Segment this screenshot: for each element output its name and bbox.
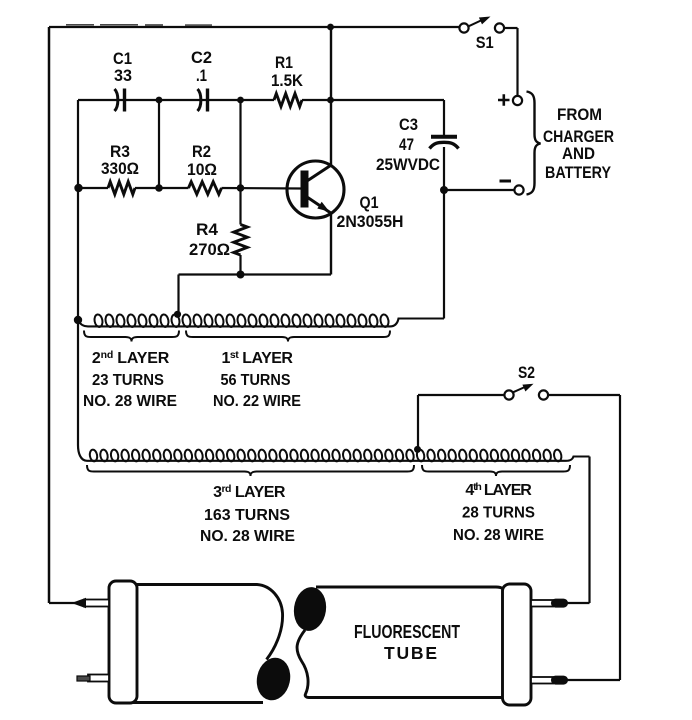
resistor R3 — [108, 182, 135, 195]
inductor winding row 2 (layers 3+4) — [87, 457, 590, 461]
wire: horizontal bus y=100 — [78, 99, 274, 101]
brace: 4th layer — [422, 465, 570, 476]
switch S1 — [459, 23, 468, 32]
- terminal — [514, 185, 523, 194]
svg-text:3rd LAYER: 3rd LAYER — [213, 483, 286, 501]
svg-text:1st LAYER: 1st LAYER — [222, 349, 294, 367]
wire: outer left vertical rail — [48, 27, 51, 603]
svg-text:R4: R4 — [196, 221, 219, 239]
wire: C3 bottom to minus terminal — [444, 189, 515, 191]
node: winding row2 tap (3rd/4th layer) — [414, 446, 421, 453]
resistor R4 — [239, 188, 241, 225]
node: R3/R2 junction (159,188) — [155, 184, 163, 192]
svg-text:R1: R1 — [275, 54, 293, 72]
pin: tube upper-right — [531, 600, 553, 607]
wire: down to first winding right end — [443, 190, 445, 319]
node: R3 left junction (78,188) — [74, 184, 82, 192]
node: R2/R4/base junction (240,188) — [237, 184, 245, 192]
brace: 1st layer — [186, 331, 390, 342]
svg-text:C1: C1 — [113, 50, 132, 68]
inductor winding row 1 (layers 2+1) — [78, 319, 444, 327]
svg-text:23 TURNS: 23 TURNS — [92, 372, 164, 389]
svg-text:25WVDC: 25WVDC — [376, 156, 440, 174]
resistor R1 — [274, 94, 302, 107]
pin: tube lower-left (stub) — [88, 675, 109, 682]
svg-text:NO. 28 WIRE: NO. 28 WIRE — [83, 393, 177, 410]
svg-text:R2: R2 — [192, 143, 211, 161]
brace: from charger and battery — [527, 92, 541, 195]
svg-text:C2: C2 — [191, 49, 212, 67]
svg-text:NO. 28 WIRE: NO. 28 WIRE — [453, 527, 544, 544]
node: R1/collector junction (330,100) — [327, 97, 334, 104]
wire: bottom-left to tube pin — [49, 602, 78, 604]
svg-text:Q1: Q1 — [360, 194, 379, 212]
wire: S2 right to outer right rail — [548, 394, 621, 396]
svg-text:10Ω: 10Ω — [187, 161, 217, 179]
svg-text:4th LAYER: 4th LAYER — [465, 481, 532, 499]
svg-text:33: 33 — [114, 67, 132, 85]
svg-text:.1: .1 — [196, 67, 207, 85]
svg-text:1.5K: 1.5K — [271, 72, 303, 90]
wire: C1-C2 junction vertical x=159 — [158, 100, 160, 188]
svg-text:2N3055H: 2N3055H — [337, 213, 404, 231]
capacitor C1 — [115, 89, 118, 111]
fluorescent tube: left end cap — [109, 581, 137, 703]
svg-text:FLUORESCENT: FLUORESCENT — [354, 622, 460, 642]
wire: S1 right contact to corner — [504, 27, 518, 29]
fluorescent tube: bend ellipse lower — [253, 655, 294, 704]
wire: down to winding tap x=180 — [177, 275, 179, 314]
wire: C2-R1 junction vertical x=240 — [239, 100, 241, 188]
wire: inner left vertical — [77, 100, 79, 320]
node: C3 bottom junction — [440, 186, 448, 194]
node: winding row1 left — [74, 316, 82, 324]
wire: S1 to + terminal — [516, 28, 518, 96]
fluorescent tube: bend ellipse upper — [291, 585, 329, 633]
wire: scan artifact dashes above top rail — [66, 24, 212, 26]
svg-text:28 TURNS: 28 TURNS — [462, 505, 535, 522]
svg-text:56 TURNS: 56 TURNS — [221, 372, 291, 389]
svg-text:TUBE: TUBE — [384, 643, 437, 663]
wire: inner left vertical lower part — [78, 320, 87, 461]
switch S2 — [504, 390, 513, 399]
svg-text:2nd LAYER: 2nd LAYER — [92, 349, 170, 367]
wire: winding row2 to tube upper right pin — [588, 457, 590, 604]
node: C1/C2 junction (159,100) — [156, 97, 163, 104]
capacitor C3 — [443, 100, 445, 135]
wire: base bus y=188 — [78, 187, 108, 189]
svg-text:S2: S2 — [518, 364, 535, 382]
wire: top rail y=27 — [49, 26, 460, 28]
wire: S2 left contact to winding tap — [418, 394, 505, 396]
svg-text:AND: AND — [562, 145, 595, 163]
fluorescent tube: right end cap — [503, 584, 532, 705]
svg-text:NO. 22 WIRE: NO. 22 WIRE — [213, 393, 301, 410]
svg-text:BATTERY: BATTERY — [545, 164, 611, 182]
capacitor C2 — [198, 89, 201, 111]
brace: 2nd layer — [84, 331, 179, 342]
fluorescent tube: S-curve between bends — [297, 630, 309, 698]
svg-text:NO. 28 WIRE: NO. 28 WIRE — [200, 528, 295, 545]
svg-text:CHARGER: CHARGER — [543, 128, 614, 146]
svg-text:47: 47 — [399, 136, 414, 154]
+ terminal — [513, 96, 522, 105]
brace: 3rd layer — [87, 465, 414, 476]
pin: tube upper-left — [84, 600, 109, 607]
wire: collector vertical x=331 — [330, 27, 332, 166]
node: junction top rail / collector — [327, 24, 334, 31]
svg-text:R3: R3 — [110, 143, 130, 161]
fluorescent tube: left segment body — [130, 585, 283, 703]
svg-text:S1: S1 — [476, 34, 494, 52]
svg-text:C3: C3 — [399, 116, 418, 134]
node: C2/R1 junction (240,100) — [237, 97, 244, 104]
transistor Q1 — [287, 161, 344, 218]
svg-text:330Ω: 330Ω — [101, 160, 139, 178]
node: R4 bottom junction — [237, 271, 245, 279]
svg-text:FROM: FROM — [557, 106, 602, 124]
resistor R2 — [189, 182, 222, 195]
svg-text:270Ω: 270Ω — [189, 241, 230, 259]
node: winding row1 tap (2nd/1st layer) — [174, 311, 181, 318]
fluorescent tube: right segment body — [309, 587, 506, 698]
svg-text:163 TURNS: 163 TURNS — [204, 507, 290, 524]
wire: emitter bus y=273 — [179, 273, 332, 275]
pin: tube lower-right — [531, 677, 553, 684]
